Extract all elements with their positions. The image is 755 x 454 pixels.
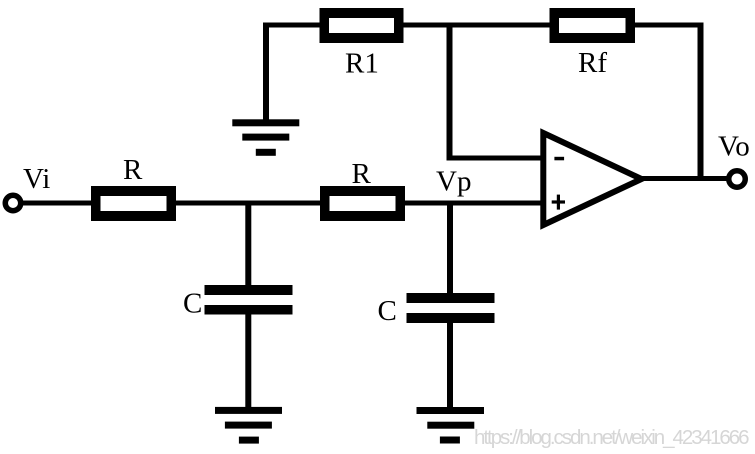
resistor R (input) — [91, 186, 176, 221]
svg-text:R1: R1 — [345, 47, 379, 79]
wire main signal horizontal (Vi to + input) — [22, 201, 546, 206]
resistor Rf — [550, 8, 636, 43]
wire vertical junction to inverting input — [447, 23, 453, 161]
svg-text:https://blog.csdn.net/weixin_4: https://blog.csdn.net/weixin_42341666 — [474, 426, 750, 449]
resistor R1 — [320, 8, 404, 43]
terminal Vi — [5, 195, 21, 211]
capacitor C1 — [205, 285, 293, 315]
svg-text:Vp: Vp — [436, 166, 471, 198]
svg-text:R: R — [123, 154, 143, 186]
wire capacitor C2 lower vertical — [447, 321, 453, 408]
op-amp plus sign — [552, 195, 565, 210]
ground (bottom right, below C2) — [417, 407, 485, 444]
op-amp U1 — [543, 133, 641, 225]
op-amp minus sign — [554, 157, 564, 161]
wire vertical to top ground — [263, 25, 269, 120]
capacitor C2 — [407, 293, 495, 323]
svg-text:C: C — [378, 295, 397, 327]
wire capacitor C1 upper vertical — [245, 203, 251, 286]
svg-text:Rf: Rf — [578, 47, 607, 79]
svg-text:Vo: Vo — [718, 131, 750, 163]
ground (top, below R1 left node) — [232, 119, 299, 156]
svg-text:C: C — [183, 288, 202, 320]
ground (bottom left, below C1) — [215, 407, 282, 444]
wire inverting input horizontal — [447, 156, 547, 161]
svg-text:R: R — [352, 158, 372, 190]
wire output horizontal — [638, 176, 730, 181]
svg-text:Vi: Vi — [23, 163, 50, 195]
resistor R (second) — [320, 186, 405, 221]
wire top horizontal (R1/Rf net) — [263, 23, 704, 28]
wire capacitor C1 lower vertical — [245, 313, 251, 408]
terminal Vo — [729, 171, 746, 188]
wire feedback vertical (Rf right to output) — [698, 23, 704, 181]
wire node Vp vertical to C2 — [447, 203, 453, 294]
